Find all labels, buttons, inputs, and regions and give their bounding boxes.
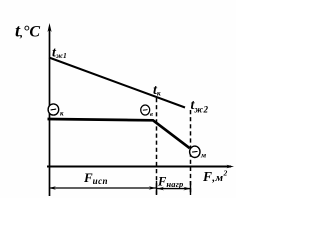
svg-text:tк: tк: [153, 83, 161, 98]
line t_zh1 to t_zh2: [49, 58, 185, 108]
svg-text:Fнагр: Fнагр: [157, 175, 184, 190]
svg-text:в: в: [150, 111, 153, 118]
dimension arrow right (F_isp): [149, 186, 156, 190]
svg-text:к: к: [60, 110, 64, 118]
theta_v circle: [141, 105, 150, 115]
x-axis: [47, 166, 231, 168]
x-axis arrowhead: [227, 165, 235, 169]
y-axis arrowhead: [48, 23, 52, 32]
y-axis: [49, 27, 51, 196]
theta_m circle: [190, 146, 200, 157]
dimension arrow right (F_nagr): [183, 187, 190, 191]
solid lower part of F_isp boundary line: [156, 181, 158, 195]
dimension arrow left (F_isp): [49, 186, 56, 190]
dimension line F_isp: [49, 187, 156, 189]
svg-text:Fисп: Fисп: [83, 170, 108, 186]
theta line horizontal segment: [48, 119, 190, 148]
svg-text:tж2: tж2: [191, 98, 209, 115]
svg-text:м: м: [200, 151, 206, 160]
dashed vertical line at F_isp boundary: [156, 98, 158, 195]
svg-text:t,°C: t,°C: [15, 21, 40, 41]
dimension arrow left (F_nagr): [157, 187, 164, 191]
svg-text:tж1: tж1: [52, 46, 67, 61]
svg-text:F,м2: F,м2: [202, 169, 228, 185]
dashed vertical line at F_nagr boundary: [190, 110, 192, 195]
dimension line F_nagr: [157, 188, 190, 190]
theta_k circle: [48, 104, 59, 115]
solid lower part of F_nagr boundary line: [190, 181, 192, 195]
